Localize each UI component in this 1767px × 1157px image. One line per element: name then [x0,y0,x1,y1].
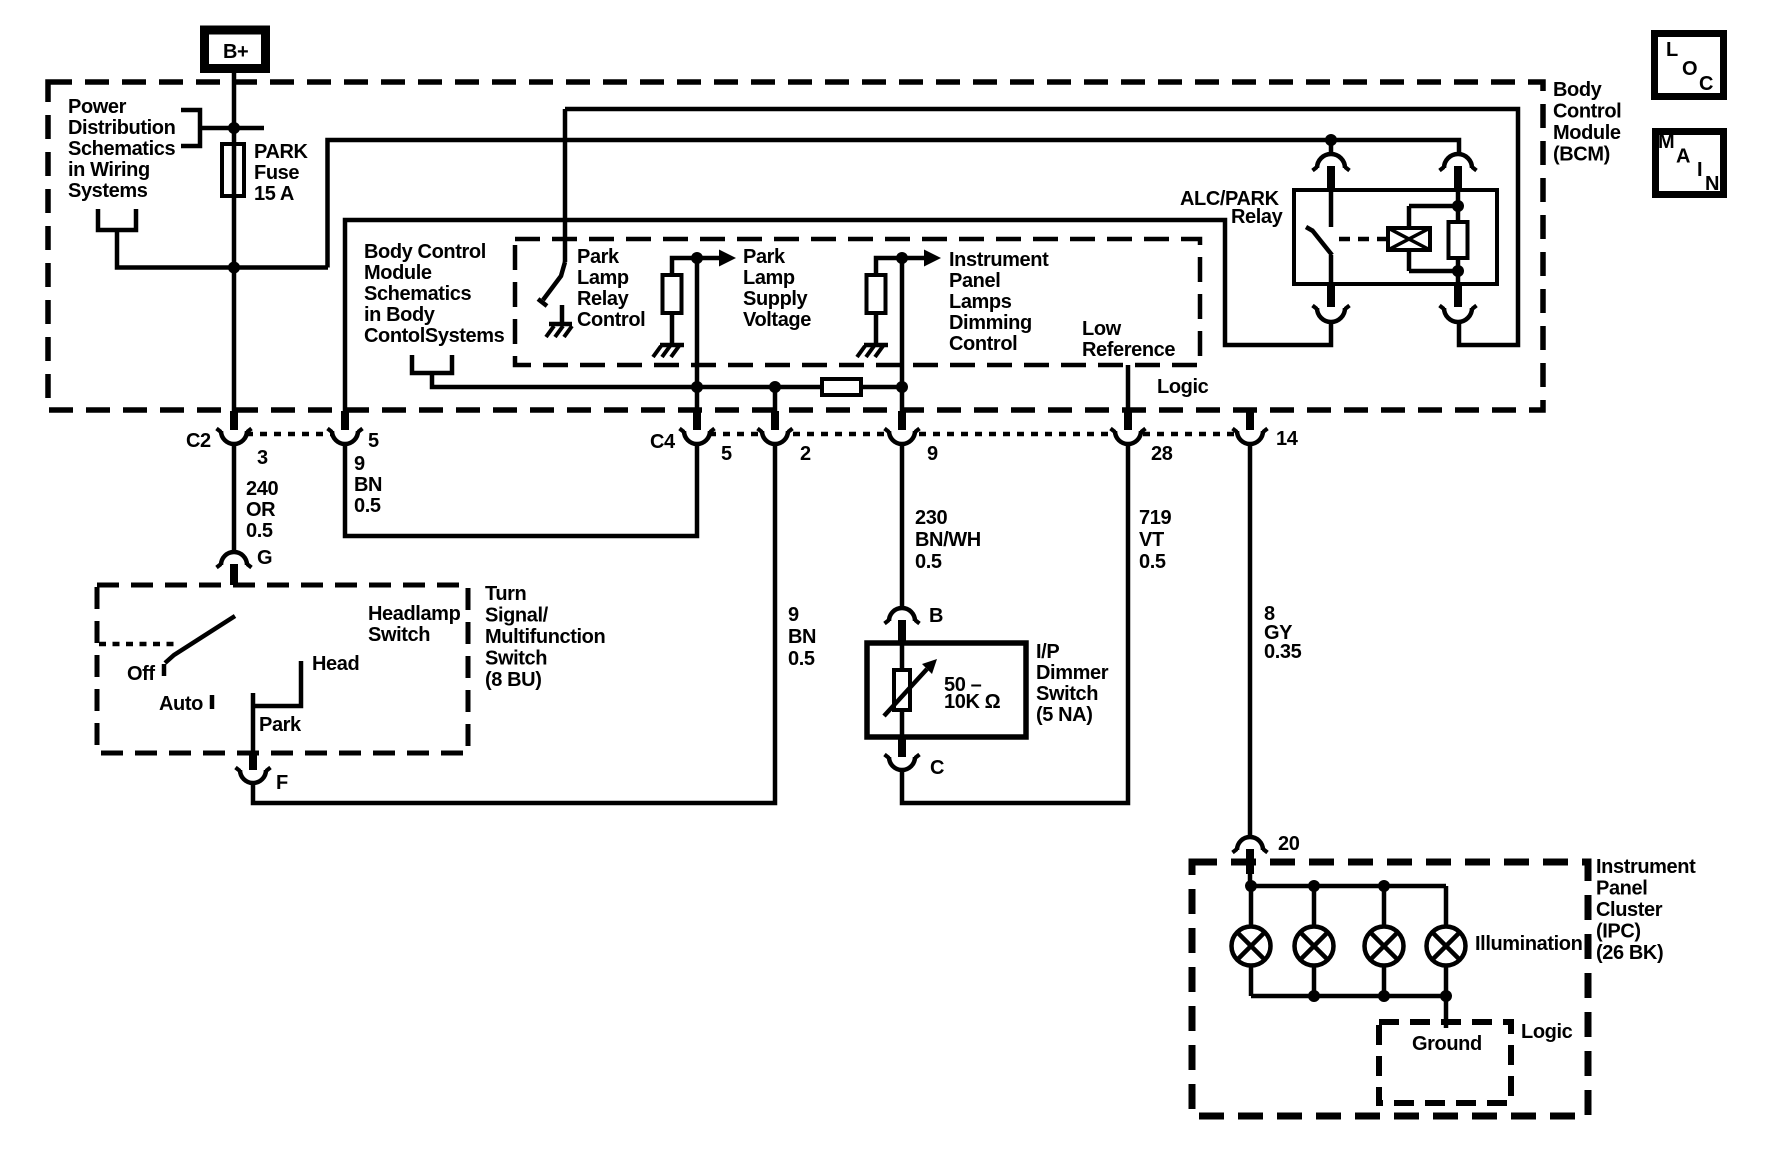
svg-text:Park: Park [577,246,620,268]
wire riser to relay contact feed [328,140,1460,268]
connector dotted line C4 [709,432,1238,437]
wire label: 719 VT 0.5 [1139,507,1171,573]
label: PARK Fuse 15 A [254,141,309,205]
svg-text:230: 230 [915,507,947,529]
svg-text:(26 BK): (26 BK) [1596,942,1663,964]
wire B+ down through fuse to connector C2 pin 3 [232,73,237,430]
svg-text:Logic: Logic [1157,376,1209,398]
resistor R2 dimming control sense [867,258,903,343]
svg-text:L: L [1666,39,1678,61]
mechanical link dashes to coil [1339,237,1379,242]
BCM inner logic dashed box [515,239,1200,365]
label: Park Lamp Supply Voltage [743,246,811,331]
node: junction dot lamp1 feed [1245,880,1257,892]
svg-text:Relay: Relay [577,288,630,310]
svg-text:Panel: Panel [1596,878,1647,900]
resistor R3 in series on internal bus [822,379,861,395]
wire C2-5 to C4-5 harness loop [345,444,697,536]
svg-text:Lamps: Lamps [949,291,1012,313]
svg-text:Power: Power [68,96,127,118]
svg-text:Control: Control [1553,101,1621,123]
svg-text:BN/WH: BN/WH [915,529,981,551]
node: junction dot R1 output [691,252,703,264]
label: ALC/PARK Relay [1180,188,1284,228]
svg-text:Lamp: Lamp [743,267,795,289]
relay coil [1379,206,1430,271]
wire label: 230 BN/WH 0.5 [915,507,981,573]
svg-text:Switch: Switch [368,624,430,646]
svg-text:9: 9 [788,604,799,626]
node: junction dot bus at pin5 riser [691,381,703,393]
relay switch contact [1306,190,1332,284]
label: Turn Signal/Multifunction Switch (8 BU) [485,583,605,691]
node: junction dot coil/resistor bottom [1452,265,1464,277]
svg-text:Signal/: Signal/ [485,605,549,627]
resistor R1 park lamp supply voltage sense [663,258,698,343]
svg-text:14: 14 [1276,428,1299,450]
connector pin C2-5 [328,411,363,444]
svg-text:Ground: Ground [1412,1033,1482,1055]
battery feed B+ box [205,30,266,69]
label: Instrument Panel Cluster (IPC) (26 BK) [1596,856,1696,964]
wire IPC lamp ground bus [1251,994,1446,999]
node: junction dot R2 output [896,252,908,264]
node: junction dot fuse output [228,262,240,274]
node: junction dot lamp3 feed [1378,880,1390,892]
wire coil parallel loop bottom [1409,269,1458,274]
contact Auto [210,695,215,709]
wire low reference to pin 28 [1126,365,1131,430]
headlamp switch blade [165,616,235,663]
wire relay switch output to C2 pin 5 [345,220,1331,430]
connector pin 20 IPC [1233,837,1268,886]
svg-text:N: N [1705,173,1719,195]
svg-text:Switch: Switch [1036,683,1098,705]
label: I/P Dimmer Switch (5 NA) [1036,641,1109,726]
svg-text:M: M [1658,131,1674,153]
wire IPC lamp feed bus [1251,884,1446,889]
svg-text:O: O [1682,58,1697,80]
svg-text:F: F [276,772,288,794]
svg-text:Dimmer: Dimmer [1036,662,1109,684]
label: Low Reference [1082,318,1175,361]
connector pin C4-9 [885,411,920,444]
LOC reference box [1655,34,1724,97]
svg-text:BN: BN [788,626,816,648]
svg-text:28: 28 [1151,443,1173,465]
arrow: park lamp supply voltage output [697,250,736,267]
Body Control Module outer dashed box [48,82,1543,410]
svg-text:Instrument: Instrument [1596,856,1696,878]
svg-text:C4: C4 [650,431,676,453]
potentiometer 50-10K [884,659,937,716]
connector pin C4-5 [680,411,715,444]
node: junction dot lamp2 feed [1308,880,1320,892]
svg-text:I: I [1697,159,1702,181]
wire label: 9 BN 0.5 circuit pin2 [788,604,816,670]
connector pin G headlamp switch [217,552,252,585]
connector pin: relay coil top pin [1440,154,1477,190]
svg-text:in Body: in Body [364,304,436,326]
wire pin F to C4 pin 2 [253,444,775,803]
svg-text:2: 2 [800,443,811,465]
wire label: 8 GY 0.35 [1264,603,1302,663]
headlamp switch travel dotted line [99,642,177,647]
svg-text:Systems: Systems [68,180,148,202]
resistor R4 relay suppression resistor [1449,190,1468,284]
wire ground bus into ground logic box [1444,996,1449,1028]
svg-text:Logic: Logic [1521,1021,1573,1043]
lamp L2 illumination [1295,927,1334,966]
svg-text:BN: BN [354,474,382,496]
svg-text:C: C [930,757,944,779]
svg-text:(5 NA): (5 NA) [1036,704,1093,726]
svg-text:B+: B+ [223,41,248,63]
svg-text:Module: Module [364,262,432,284]
connector pin C2-3 [217,411,252,444]
I/P dimmer switch box [867,643,1026,737]
svg-text:Headlamp: Headlamp [368,603,461,625]
svg-text:Multifunction: Multifunction [485,626,605,648]
svg-text:Panel: Panel [949,270,1000,292]
svg-text:Dimming: Dimming [949,312,1032,334]
svg-text:OR: OR [246,499,276,521]
svg-text:Off: Off [127,663,155,685]
svg-text:Supply: Supply [743,288,809,310]
node: junction dot coil/resistor top [1452,200,1464,212]
svg-text:Instrument: Instrument [949,249,1049,271]
node: junction dot lamp2 return [1308,990,1320,1002]
headlamp switch dashed box [97,585,468,753]
connector pin: relay switch top pin [1313,140,1350,190]
connector pin C dimmer switch [885,737,920,770]
node: junction dot lamp4 return [1440,990,1452,1002]
svg-text:Head: Head [312,653,359,675]
svg-text:719: 719 [1139,507,1171,529]
svg-text:15 A: 15 A [254,183,294,205]
svg-text:Cluster: Cluster [1596,899,1663,921]
label: Headlamp Switch [368,603,461,646]
wire pin 9 down to dimmer pin B [900,444,905,608]
svg-text:Illumination: Illumination [1475,933,1582,955]
wire pin 14 down to IPC pin 20 [1248,444,1253,837]
reference symbol under BCM schematics text [412,355,452,373]
svg-text:9: 9 [354,453,365,475]
wire pin9 riser [900,258,905,430]
svg-text:(BCM): (BCM) [1553,144,1610,166]
wire from bracket to B+ wire tap [200,126,264,131]
label: Body Control Module (BCM) [1553,79,1621,166]
connector pin: relay switch bottom pin [1313,284,1350,322]
svg-text:9: 9 [927,443,938,465]
svg-text:Fuse: Fuse [254,162,299,184]
svg-text:Voltage: Voltage [743,309,811,331]
svg-text:20: 20 [1278,833,1300,855]
svg-text:3: 3 [257,447,268,469]
svg-text:5: 5 [368,430,379,452]
svg-text:Reference: Reference [1082,339,1175,361]
reference symbol under power distribution text [98,209,136,230]
svg-text:Park: Park [743,246,786,268]
connector pin: relay coil bottom pin [1440,284,1477,322]
svg-text:Relay: Relay [1231,206,1284,228]
wire pin2 riser [773,387,778,430]
connector pin B dimmer switch [885,608,920,643]
connector pin F [236,753,271,783]
svg-text:Control: Control [949,333,1017,355]
node: junction dot at fuse top tap [228,122,240,134]
switch: park lamp relay control driver [538,262,565,306]
wire dimmer pin C to C4 pin 28 [902,444,1128,803]
svg-text:0.5: 0.5 [1139,551,1166,573]
svg-text:Park: Park [259,714,302,736]
svg-text:Distribution: Distribution [68,117,175,139]
svg-text:PARK: PARK [254,141,309,163]
svg-text:10K Ω: 10K Ω [944,691,1001,713]
ground logic dashed box [1379,1022,1511,1103]
svg-text:Module: Module [1553,122,1621,144]
node: junction dot bus at pin9 riser [896,381,908,393]
svg-text:5: 5 [721,443,732,465]
node: junction dot at relay switch pin feed [1325,134,1337,146]
svg-text:in Wiring: in Wiring [68,159,150,181]
svg-text:Lamp: Lamp [577,267,629,289]
connector pin C4-28 [1111,411,1146,444]
svg-text:240: 240 [246,478,278,500]
ground at logic switch [546,305,572,337]
wire label: 9 BN 0.5 circuit C2-5 [354,453,382,517]
svg-text:A: A [1676,146,1690,168]
svg-text:Low: Low [1082,318,1122,340]
connector pin C4-2 [758,411,793,444]
svg-text:VT: VT [1139,529,1164,551]
svg-text:0.5: 0.5 [246,520,273,542]
svg-text:Schematics: Schematics [364,283,471,305]
reference bracket to power distribution [181,110,200,146]
fuse PARK Fuse 15 A [222,144,244,196]
wire label: 240 OR 0.5 [246,478,278,542]
lamp L1 illumination [1232,927,1271,966]
label: Instrument Panel Lamps Dimming Control [949,249,1049,355]
node: junction dot lamp3 return [1378,990,1390,1002]
wire C2-3 down to headlamp switch pin G [232,444,237,551]
contact Head with wire [253,661,301,706]
wire logic switch feed down into logic box [563,109,568,262]
svg-text:ContolSystems: ContolSystems [364,325,505,347]
arrow: instrument panel lamps dimming control output [902,250,941,267]
label: Power Distribution Schematics in Wiring Systems [68,96,175,202]
svg-text:C2: C2 [186,430,211,452]
MAIN reference box [1656,131,1724,195]
svg-text:0.5: 0.5 [915,551,942,573]
svg-text:Schematics: Schematics [68,138,175,160]
svg-text:(IPC): (IPC) [1596,921,1641,943]
contact Park wire to pin F [251,693,256,753]
ground at resistor R1 [653,345,684,357]
svg-text:G: G [257,547,272,569]
node: junction dot bus at pin2 riser [769,381,781,393]
label: Park Lamp Relay Control [577,246,645,331]
connector dotted line C2 [246,432,333,437]
wire lamp drops from feed bus [1251,886,1446,927]
svg-text:(8 BU): (8 BU) [485,669,542,691]
wire BCM logic to relay coil low side [565,109,1518,345]
instrument panel cluster dashed box [1192,862,1588,1116]
wire from reference symbol to fuse output junction [117,230,328,268]
svg-text:0.5: 0.5 [354,495,381,517]
svg-text:Body: Body [1553,79,1603,101]
svg-text:Body Control: Body Control [364,241,486,263]
svg-text:0.35: 0.35 [1264,641,1302,663]
svg-text:Auto: Auto [159,693,203,715]
svg-text:0.5: 0.5 [788,648,815,670]
contact Off [162,664,167,676]
wire lamp returns to ground bus [1251,966,1446,996]
svg-text:Control: Control [577,309,645,331]
wire coil parallel loop top [1409,204,1458,209]
wire from reference to internal bus [432,373,902,387]
svg-text:C: C [1699,73,1713,95]
relay K1 ALC/PARK relay box [1294,190,1497,284]
connector pin C4-14 [1233,411,1268,444]
ground at resistor R2 [857,345,888,357]
svg-text:Switch: Switch [485,648,547,670]
wire C4 pin5 riser [695,258,700,430]
svg-text:I/P: I/P [1036,641,1059,663]
lamp L3 illumination [1365,927,1404,966]
lamp L4 illumination [1427,927,1466,966]
label: 50 - 10K ohm [944,674,1001,713]
svg-text:B: B [929,605,943,627]
label: Body Control Module Schematics in Body ContolSystems [364,241,505,347]
svg-text:Turn: Turn [485,583,526,605]
wire through dimmer box [900,643,905,737]
